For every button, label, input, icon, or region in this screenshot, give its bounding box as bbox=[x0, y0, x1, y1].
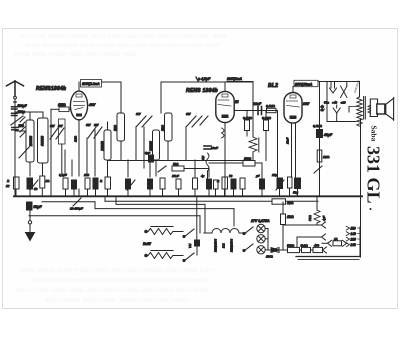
svg-text:0,1MΩ: 0,1MΩ bbox=[266, 104, 276, 108]
svg-text:10kΩ: 10kΩ bbox=[244, 157, 252, 161]
svg-text:5kΩ: 5kΩ bbox=[173, 162, 179, 166]
svg-text:+40: +40 bbox=[332, 101, 337, 105]
svg-text:4μF: 4μF bbox=[322, 216, 326, 221]
svg-text:500pF: 500pF bbox=[18, 104, 28, 108]
svg-text:50kΩ: 50kΩ bbox=[287, 244, 295, 248]
svg-text:50μF: 50μF bbox=[34, 205, 43, 209]
svg-text:20nF: 20nF bbox=[252, 102, 262, 106]
svg-text:50: 50 bbox=[229, 174, 233, 178]
svg-text:+20: +20 bbox=[341, 101, 346, 105]
svg-text:mnnu onmun umnno mnun uonmn nm: mnnu onmun umnno mnun uonmn nmuo mnnu no… bbox=[45, 298, 190, 304]
svg-text:1MΩ: 1MΩ bbox=[287, 201, 294, 205]
svg-text:5nkΩ: 5nkΩ bbox=[301, 244, 309, 248]
svg-text:240: 240 bbox=[350, 243, 357, 247]
svg-text:mnun nmu ammnn uommr nnum nnmo: mnun nmu ammnn uommr nnum nnmo muun omnn… bbox=[18, 34, 227, 40]
svg-text:50: 50 bbox=[34, 187, 38, 191]
svg-text:1MΩ: 1MΩ bbox=[323, 155, 330, 159]
svg-text:PkΩ: PkΩ bbox=[308, 214, 312, 221]
svg-text:220: 220 bbox=[350, 238, 357, 242]
svg-text:88V: 88V bbox=[303, 102, 310, 106]
svg-text:nmun omnnu unmo mnnu nomun mnu: nmun omnnu unmo mnnu nomun mnun uonm nmn… bbox=[30, 278, 208, 284]
svg-text:omnu nmnuo unmn mnnou umno nmn: omnu nmnuo unmn mnnou umno nmnu ounm mnn… bbox=[20, 268, 215, 274]
svg-text:1MΩ: 1MΩ bbox=[74, 135, 78, 142]
svg-text:RENS1884: RENS1884 bbox=[214, 238, 218, 252]
svg-text:RENS1884: RENS1884 bbox=[230, 238, 234, 252]
svg-text:110: 110 bbox=[351, 227, 356, 231]
svg-text:nmou unnm omnun mnuo nnmu umno: nmou unnm omnun mnuo nnmu umnon mnnu bbox=[15, 52, 137, 58]
svg-text:0,1μF: 0,1μF bbox=[59, 173, 67, 177]
svg-text:331 GL: 331 GL bbox=[364, 146, 384, 204]
svg-text:470: 470 bbox=[314, 244, 319, 248]
svg-text:100V,2.8mA: 100V,2.8mA bbox=[82, 82, 100, 86]
svg-text:40μF: 40μF bbox=[323, 133, 333, 137]
svg-text:100Ω: 100Ω bbox=[266, 255, 274, 259]
svg-text:17V 0,175A: 17V 0,175A bbox=[251, 219, 270, 223]
svg-text:25μ: 25μ bbox=[271, 173, 277, 177]
svg-text:1M: 1M bbox=[201, 155, 205, 160]
svg-text:RsW: RsW bbox=[143, 242, 151, 246]
svg-text:0,3MΩ: 0,3MΩ bbox=[262, 116, 272, 120]
svg-text:500: 500 bbox=[113, 125, 117, 131]
svg-text:100: 100 bbox=[84, 173, 89, 177]
svg-text:BL2: BL2 bbox=[268, 83, 278, 89]
svg-text:0,1MΩ: 0,1MΩ bbox=[313, 124, 323, 128]
svg-text:00000: 00000 bbox=[40, 136, 44, 146]
svg-text:1A: 1A bbox=[334, 237, 338, 241]
svg-text:500: 500 bbox=[161, 125, 165, 131]
svg-text:40V: 40V bbox=[88, 103, 96, 107]
svg-text:20nF: 20nF bbox=[210, 146, 218, 150]
svg-text:unom mnnu omunm nmou unnmo mnn: unom mnnu omunm nmou unnmo mnnu uomn nnm… bbox=[25, 43, 220, 49]
svg-text:RENS 1884b: RENS 1884b bbox=[186, 88, 218, 94]
svg-text:μF: μF bbox=[255, 174, 260, 178]
svg-text:20-130μF: 20-130μF bbox=[69, 207, 83, 211]
svg-text:unmo nmnu omunn mnou unmn nonm: unmo nmnu omunn mnou unmn nonmu mnnu uom… bbox=[16, 288, 208, 294]
svg-text:20000: 20000 bbox=[100, 141, 104, 152]
svg-text:Saba: Saba bbox=[370, 126, 379, 142]
svg-text:140: 140 bbox=[351, 232, 357, 236]
svg-text:100V,3mA: 100V,3mA bbox=[227, 77, 243, 81]
svg-text:n 4,5μF: n 4,5μF bbox=[198, 77, 211, 81]
svg-text:Vol: Vol bbox=[188, 243, 192, 248]
svg-text:1kΩ: 1kΩ bbox=[287, 215, 294, 219]
svg-text:1MΩ: 1MΩ bbox=[58, 103, 66, 107]
svg-text:250V,50mA: 250V,50mA bbox=[294, 82, 313, 86]
svg-text:2k: 2k bbox=[5, 184, 10, 188]
svg-text:0,1MΩ: 0,1MΩ bbox=[243, 116, 253, 120]
svg-text:25nF: 25nF bbox=[171, 174, 179, 178]
svg-text:8μF: 8μF bbox=[145, 151, 150, 155]
svg-text:10nF: 10nF bbox=[286, 137, 290, 144]
svg-text:RENS1884h: RENS1884h bbox=[36, 86, 66, 92]
svg-text:4μ: 4μ bbox=[201, 174, 205, 178]
svg-text:BL2: BL2 bbox=[222, 243, 226, 248]
